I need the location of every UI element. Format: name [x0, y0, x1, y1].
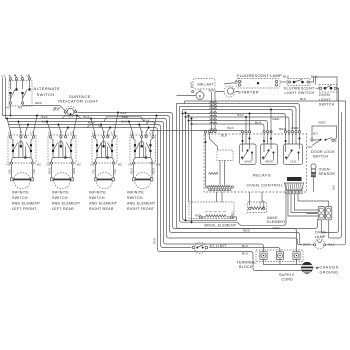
svg-text:RED: RED — [153, 238, 157, 244]
svg-text:CHASSIS: CHASSIS — [320, 266, 339, 270]
svg-text:FLUORESCENT LAMP: FLUORESCENT LAMP — [237, 73, 282, 78]
svg-text:LIGHT: LIGHT — [319, 98, 331, 102]
svg-text:H1: H1 — [6, 106, 10, 110]
relay feed lines — [183, 114, 286, 131]
svg-text:P: P — [14, 74, 16, 78]
surface indicator light lamp — [64, 106, 77, 117]
svg-text:CORD: CORD — [282, 277, 294, 281]
wire bundle right of switches — [155, 128, 302, 271]
svg-text:L2: L2 — [27, 74, 31, 78]
svg-text:LIGHT SWITCH: LIGHT SWITCH — [285, 91, 315, 95]
svg-text:L2: L2 — [70, 131, 74, 135]
fluorescent lamp — [224, 79, 287, 89]
svg-text:ALTERNATE: ALTERNATE — [34, 86, 61, 91]
svg-text:BLK: BLK — [311, 75, 318, 79]
svg-text:AND ELEMENT: AND ELEMENT — [89, 201, 118, 205]
oven light switch — [307, 85, 339, 233]
svg-text:RED: RED — [292, 126, 300, 130]
svg-text:RED: RED — [319, 121, 327, 125]
surface element 4 — [130, 164, 156, 189]
door lock switch — [311, 112, 342, 238]
wire bus L1 red — [23, 106, 171, 113]
svg-text:SWITCH: SWITCH — [52, 196, 68, 200]
relay BROIL — [261, 131, 278, 165]
svg-text:BLK: BLK — [42, 115, 49, 119]
svg-text:LEFT FRONT: LEFT FRONT — [12, 207, 37, 211]
wire bus short — [150, 130, 243, 133]
svg-text:RED: RED — [195, 214, 201, 218]
svg-text:LAMP: LAMP — [315, 235, 326, 239]
svg-text:INFINITE: INFINITE — [89, 191, 106, 195]
svg-text:RED: RED — [273, 117, 281, 121]
oven lamp — [306, 239, 335, 249]
svg-text:H2: H2 — [77, 163, 81, 167]
oven control ribbon connector — [206, 161, 234, 191]
svg-text:RIGHT FRONT: RIGHT FRONT — [127, 207, 155, 211]
svg-text:P: P — [103, 131, 105, 135]
svg-text:BLK: BLK — [242, 252, 249, 256]
svg-text:P: P — [60, 131, 62, 135]
svg-text:ELEMENT: ELEMENT — [267, 220, 286, 224]
svg-text:RED: RED — [72, 168, 76, 174]
svg-text:BLK: BLK — [53, 107, 60, 111]
oven sensor — [311, 164, 316, 192]
wire bus red 2 — [8, 124, 158, 126]
svg-text:H2: H2 — [118, 163, 122, 167]
svg-text:H2: H2 — [37, 163, 41, 167]
svg-text:SENSOR: SENSOR — [319, 172, 336, 176]
wire bus blk 4 — [10, 127, 155, 129]
svg-text:RED: RED — [243, 228, 251, 232]
svg-text:RED: RED — [35, 101, 43, 105]
wires connector to receptacle — [288, 194, 318, 216]
bake element — [248, 192, 267, 213]
svg-text:BLK: BLK — [329, 242, 336, 246]
svg-text:P: P — [141, 131, 143, 135]
wire fluor switch to oven light switch — [309, 77, 318, 85]
svg-text:INFINITE: INFINITE — [12, 191, 29, 195]
svg-text:P: P — [20, 131, 22, 135]
svg-text:BALLAST: BALLAST — [198, 83, 214, 87]
svg-text:BROIL ELEMENT: BROIL ELEMENT — [205, 224, 237, 228]
svg-text:BLK: BLK — [300, 97, 307, 101]
svg-text:AND ELEMENT: AND ELEMENT — [52, 201, 81, 205]
svg-text:HI LIMIT: HI LIMIT — [210, 244, 227, 248]
wire oven lamp right to edge — [335, 101, 346, 245]
wire fluorescent feed lines — [177, 104, 300, 131]
wire bus blk 3 — [8, 121, 161, 123]
svg-text:OVEN CONTROL: OVEN CONTROL — [247, 183, 284, 188]
svg-text:STARTER: STARTER — [238, 90, 259, 95]
svg-text:L1: L1 — [2, 74, 6, 78]
svg-text:L1: L1 — [92, 131, 96, 135]
surface element 2 — [48, 164, 76, 189]
svg-text:NC: NC — [308, 145, 313, 149]
ballast coil B — [177, 89, 205, 100]
wire BLK return line — [185, 77, 338, 104]
svg-text:DLB: DLB — [291, 160, 297, 164]
svg-text:SUPPLY: SUPPLY — [279, 273, 295, 277]
supply cord — [302, 262, 313, 273]
hi limit thermostat — [192, 242, 207, 253]
infinite switch 4 (RIGHT FRONT) — [128, 115, 161, 167]
svg-text:FLUORESCENT: FLUORESCENT — [284, 86, 315, 90]
svg-text:OVEN: OVEN — [319, 167, 330, 171]
svg-text:YEL: YEL — [113, 168, 117, 174]
relay BAKE — [240, 131, 257, 165]
svg-text:L2: L2 — [111, 131, 115, 135]
svg-text:H1: H1 — [7, 163, 11, 167]
svg-text:L2: L2 — [30, 131, 34, 135]
oven control entry terminals — [204, 131, 206, 133]
svg-text:L1: L1 — [130, 131, 134, 135]
svg-text:BLK: BLK — [84, 115, 91, 119]
infinite switch 3 (RIGHT REAR) — [90, 112, 122, 167]
svg-text:RED: RED — [130, 168, 134, 174]
svg-text:YEL: YEL — [8, 168, 12, 174]
infinite switch 1 (LEFT FRONT) — [6, 115, 41, 167]
svg-text:NO: NO — [313, 132, 318, 136]
svg-text:LEFT REAR: LEFT REAR — [52, 207, 74, 211]
svg-text:SWITCH: SWITCH — [12, 196, 28, 200]
alternate switch S1 — [2, 74, 33, 117]
oven control inner module — [217, 150, 233, 161]
svg-text:YEL: YEL — [258, 200, 262, 206]
receptacle plug — [318, 207, 332, 239]
ballast — [192, 79, 215, 93]
ballast drop wires — [211, 92, 213, 130]
svg-text:BLK: BLK — [283, 75, 290, 79]
svg-text:YEL: YEL — [92, 168, 96, 174]
svg-text:SWITCH: SWITCH — [319, 103, 335, 107]
svg-text:OVEN: OVEN — [315, 231, 326, 235]
svg-text:L2: L2 — [150, 131, 154, 135]
svg-text:RED: RED — [48, 168, 52, 174]
svg-text:L1: L1 — [8, 131, 12, 135]
svg-text:BAKE: BAKE — [245, 160, 253, 164]
infinite switch 2 (LEFT REAR) — [46, 115, 81, 167]
svg-text:H1: H1 — [129, 163, 133, 167]
svg-text:H1: H1 — [91, 163, 95, 167]
svg-text:L1: L1 — [48, 131, 52, 135]
svg-text:BLK: BLK — [242, 244, 249, 248]
svg-text:BAKE: BAKE — [267, 216, 278, 220]
svg-text:YEL: YEL — [32, 168, 36, 174]
relay DLB — [284, 131, 303, 165]
svg-text:YEL: YEL — [231, 211, 235, 217]
svg-text:AND ELEMENT: AND ELEMENT — [12, 201, 41, 205]
svg-text:OVEN: OVEN — [319, 93, 330, 97]
oven control edge connector — [285, 177, 304, 194]
terminal block — [256, 250, 303, 262]
surface element 3 — [92, 164, 117, 189]
wire drop to broil relay — [270, 110, 272, 133]
wires terminal block feeds — [264, 259, 302, 264]
wire nest mid — [177, 104, 318, 229]
svg-text:RED: RED — [152, 168, 156, 174]
svg-text:BLK: BLK — [332, 185, 336, 190]
svg-text:BLOCK: BLOCK — [239, 265, 253, 269]
svg-text:WHT: WHT — [189, 81, 193, 88]
svg-text:RELAYS: RELAYS — [253, 172, 271, 177]
svg-text:SWITCH: SWITCH — [89, 196, 105, 200]
starter — [215, 86, 239, 97]
svg-text:H1: H1 — [47, 163, 51, 167]
svg-text:B: B — [199, 94, 202, 98]
svg-text:BROIL: BROIL — [266, 160, 275, 164]
svg-text:INFINITE: INFINITE — [52, 191, 69, 195]
chassis ground arrow — [313, 267, 317, 269]
svg-text:DOOR LOCK: DOOR LOCK — [311, 150, 335, 154]
wire bus blk 1 — [3, 78, 168, 116]
svg-text:BLK: BLK — [122, 119, 129, 123]
oven control box — [204, 134, 307, 192]
wire bus blk 2 — [6, 78, 165, 119]
svg-text:AND ELEMENT: AND ELEMENT — [127, 201, 156, 205]
svg-text:RIGHT REAR: RIGHT REAR — [89, 207, 114, 211]
surface element 1 — [8, 164, 36, 189]
fluorescent light switch — [288, 79, 311, 86]
svg-text:WHT: WHT — [303, 242, 311, 246]
svg-text:H2: H2 — [18, 106, 22, 110]
svg-text:GROUND: GROUND — [320, 270, 339, 274]
svg-text:INDICATOR LIGHT: INDICATOR LIGHT — [58, 99, 99, 104]
svg-text:SWITCH: SWITCH — [37, 92, 55, 97]
svg-text:TERMINAL: TERMINAL — [237, 261, 257, 265]
svg-text:WHT: WHT — [209, 88, 217, 92]
svg-text:SWITCH: SWITCH — [313, 154, 329, 158]
wire jog trapezoids — [62, 116, 81, 119]
broil element — [189, 192, 237, 220]
svg-text:INFINITE: INFINITE — [127, 191, 144, 195]
svg-text:SWITCH: SWITCH — [127, 196, 143, 200]
svg-text:RED: RED — [273, 226, 281, 230]
svg-text:BLK: BLK — [228, 126, 235, 130]
svg-text:H2: H2 — [156, 163, 160, 167]
